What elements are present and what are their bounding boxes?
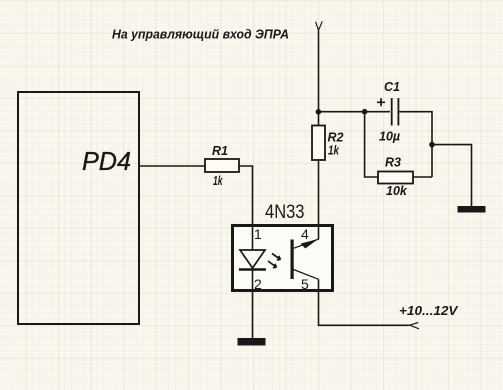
svg-text:C1: C1 bbox=[384, 80, 400, 94]
svg-text:R1: R1 bbox=[212, 144, 228, 158]
svg-text:R3: R3 bbox=[385, 156, 401, 170]
svg-text:1k: 1k bbox=[328, 144, 340, 158]
svg-text:10µ: 10µ bbox=[379, 130, 400, 144]
svg-text:4: 4 bbox=[301, 226, 309, 242]
svg-text:PD4: PD4 bbox=[82, 148, 131, 176]
svg-text:+10...12V: +10...12V bbox=[399, 303, 459, 318]
svg-text:На управляющий вход ЭПРА: На управляющий вход ЭПРА bbox=[112, 27, 289, 42]
svg-text:4N33: 4N33 bbox=[265, 201, 305, 223]
svg-text:1k: 1k bbox=[213, 174, 223, 188]
svg-text:10k: 10k bbox=[386, 184, 408, 198]
svg-text:5: 5 bbox=[301, 276, 309, 292]
svg-text:1: 1 bbox=[254, 226, 262, 242]
svg-text:2: 2 bbox=[254, 276, 262, 292]
svg-text:R2: R2 bbox=[328, 131, 344, 145]
